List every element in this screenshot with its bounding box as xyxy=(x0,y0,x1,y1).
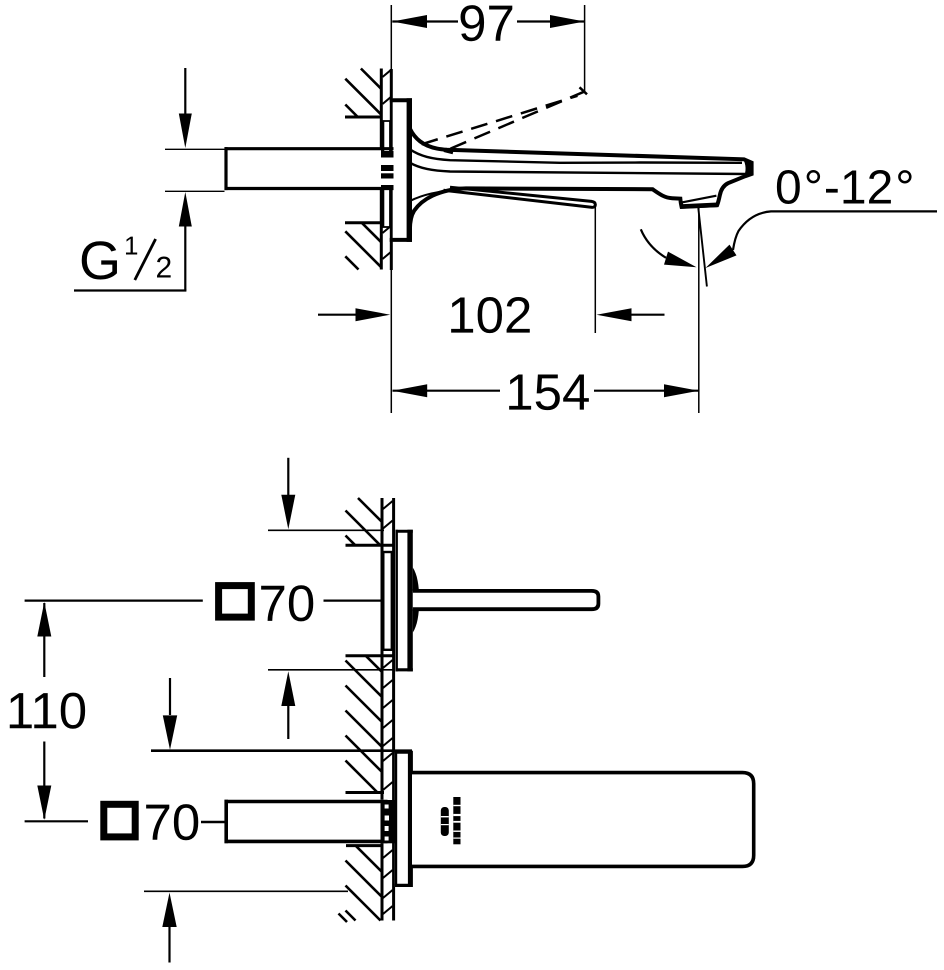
dimension 97 xyxy=(392,0,584,92)
svg-text:110: 110 xyxy=(6,682,87,739)
svg-text:2: 2 xyxy=(155,252,172,285)
svg-text:154: 154 xyxy=(505,364,590,421)
wall hatching (plan view) xyxy=(339,498,383,922)
escutcheon plate (side view) xyxy=(393,98,412,242)
wall opening cut edge top (side view) xyxy=(345,116,383,119)
plaster tick marks (side view) xyxy=(383,70,391,259)
handle escutcheon plate (plan view) xyxy=(396,530,413,672)
GROHE logo (rotated) xyxy=(441,797,461,844)
handle dome (plan view) xyxy=(413,568,419,633)
spout body (plan view) xyxy=(412,773,754,867)
wall back line (plan view) xyxy=(381,498,384,921)
spout tip cap xyxy=(743,158,754,178)
svg-text:70: 70 xyxy=(143,794,200,851)
dimension 154 xyxy=(393,364,699,421)
threaded connection through wall (plan view) xyxy=(381,800,397,843)
svg-text:1: 1 xyxy=(124,231,138,261)
G1/2 leader underline xyxy=(74,289,186,291)
plaster tick marks (plan view) xyxy=(383,501,393,914)
spout outline xyxy=(410,129,752,230)
aerator face line xyxy=(682,196,717,203)
threaded inlet connection through wall (side view) xyxy=(381,151,394,187)
spout escutcheon plate (plan view) xyxy=(395,752,412,887)
water stream vertical (0 deg) / extension line xyxy=(698,208,700,414)
dimension square-70 (spout) xyxy=(104,678,412,963)
aerator bottom edge xyxy=(681,205,718,207)
wall opening cut edge bottom (side view) xyxy=(345,221,383,224)
lever raised position (dashed) xyxy=(422,87,588,152)
lever in rest position (side view) xyxy=(444,187,596,207)
wall hatching (side view) xyxy=(345,69,381,270)
spout contour line 3 xyxy=(410,163,746,174)
wall back line (side view) xyxy=(380,69,383,270)
wall face line / extension line (side view) xyxy=(390,5,392,413)
svg-text:G: G xyxy=(79,231,121,291)
swivel angle arc right with leader xyxy=(706,211,938,268)
handle lever bar (plan view) xyxy=(413,591,599,609)
spout body (side view) xyxy=(410,129,754,230)
spout contour line 2 xyxy=(410,149,742,163)
under flare secondary line xyxy=(410,190,462,202)
wall opening cut edges (plan view) xyxy=(346,545,394,845)
inlet pipe G1/2 (side view) xyxy=(225,148,382,190)
dimension 102 xyxy=(318,207,665,344)
dimension square-70 (handle) xyxy=(25,458,395,739)
wall face line (plan view) xyxy=(392,498,395,921)
supply pipe (plan view) xyxy=(225,800,388,844)
svg-text:102: 102 xyxy=(447,287,532,344)
svg-text:70: 70 xyxy=(258,575,315,632)
G1/2 extension lines xyxy=(165,148,225,150)
svg-text:97: 97 xyxy=(458,0,515,52)
concealed flange behind wall (plan view, handle) xyxy=(383,552,392,650)
dimension 110 xyxy=(6,602,88,821)
concealed flange behind wall (side view) xyxy=(383,121,390,227)
swivel angle arc left xyxy=(641,229,697,267)
G1/2 dimension arrows xyxy=(184,68,186,114)
water stream tilted (12 deg) xyxy=(698,208,707,287)
